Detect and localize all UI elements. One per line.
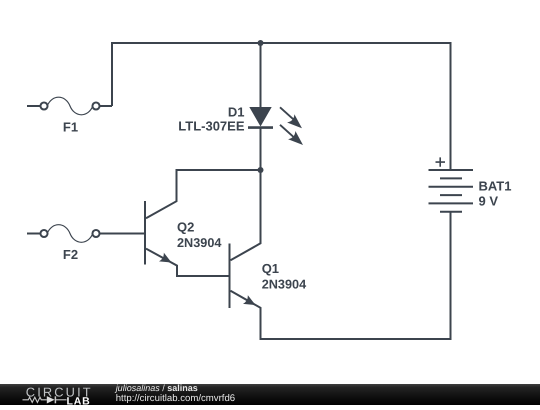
- svg-text:9 V: 9 V: [479, 194, 499, 209]
- wire Q1 emitter to bottom rail and battery negative: [231, 291, 452, 339]
- transistor Q2: [145, 201, 172, 265]
- svg-text:F2: F2: [63, 247, 78, 262]
- svg-text:LTL-307EE: LTL-307EE: [178, 119, 245, 134]
- transistor Q1: [230, 244, 256, 309]
- wire mid junction to Q2 collector lead: [146, 170, 261, 218]
- wire F1 riser to top rail: [112, 43, 261, 106]
- fuse F1: [27, 97, 112, 115]
- svg-text:D1: D1: [228, 105, 245, 120]
- battery BAT1: [429, 43, 474, 339]
- fuse F2: [27, 225, 145, 243]
- svg-text:http://circuitlab.com/cmvrfd6: http://circuitlab.com/cmvrfd6: [116, 393, 235, 404]
- svg-text:juliosalinas / salinas: juliosalinas / salinas: [115, 383, 198, 393]
- svg-text:BAT1: BAT1: [479, 178, 512, 193]
- wire top rail to LED anode: [260, 43, 262, 108]
- svg-text:LAB: LAB: [67, 395, 91, 405]
- svg-text:2N3904: 2N3904: [262, 277, 306, 291]
- wire LED cathode to mid junction: [260, 128, 262, 170]
- LED D1: [248, 107, 303, 145]
- svg-text:F1: F1: [63, 120, 78, 135]
- svg-text:Q1: Q1: [262, 261, 279, 276]
- wire Q1 collector lead to mid junction: [231, 170, 261, 260]
- wire Q2 emitter to Q1 base: [146, 249, 230, 276]
- node junction mid: [258, 167, 264, 173]
- wire top rail right: [261, 42, 452, 44]
- node junction top: [258, 40, 264, 46]
- svg-text:2N3904: 2N3904: [177, 236, 221, 250]
- CircuitLab logo: [23, 384, 93, 407]
- svg-text:Q2: Q2: [177, 219, 194, 234]
